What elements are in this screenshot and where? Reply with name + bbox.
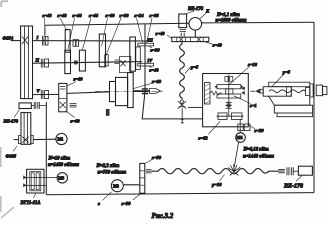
svg-text:p=10: p=10 [211,182,222,187]
svg-text:z=50: z=50 [151,155,162,160]
motor K [189,18,202,31]
couplings before right tachogenerator [278,169,284,172]
svg-text:M4: M4 [237,135,243,140]
enclosure frame bottom edge [46,193,314,195]
svg-text:Φ105: Φ105 [6,154,17,159]
svg-text:z=60: z=60 [70,119,81,124]
svg-text:z=46: z=46 [72,13,83,18]
svg-text:z=66: z=66 [149,13,160,18]
M1 shaft [14,138,56,140]
spindle nose centre arrow [133,90,149,92]
svg-text:z: z [97,201,100,206]
svg-text:M5: M5 [58,175,64,180]
svg-text:I: I [36,35,39,40]
lower belt drive from M1 [19,113,34,145]
worm hub [226,89,233,94]
clutch on shaft I [42,36,44,46]
svg-text:BE-178: BE-178 [3,119,19,124]
svg-text:p=5: p=5 [190,65,199,70]
svg-text:z=46: z=46 [88,13,99,18]
nut stem and bowtie [181,108,183,119]
feed gear column z=50 [140,163,145,193]
shaft from worm box to M4 [239,120,241,133]
shaft V [33,93,59,95]
enclosure frame right edge [313,22,315,192]
burst nut on feed screw [228,164,240,175]
svg-text:n=1440 об/мин: n=1440 об/мин [243,154,274,159]
worm gearbox housing [203,74,249,127]
bowties below worm [226,102,231,108]
svg-text:z=48: z=48 [57,13,68,18]
svg-text:z=48: z=48 [42,13,53,18]
svg-text:z=30: z=30 [150,47,161,52]
svg-text:z=40: z=40 [212,42,223,47]
bevel gear z=30 on vertical shaft [138,43,154,46]
spindle centerline [95,90,163,92]
svg-text:N=10 кBт: N=10 кBт [48,157,71,162]
coupling of tachogenerator [34,102,39,109]
svg-text:z=20: z=20 [254,128,265,133]
svg-text:z=24: z=24 [134,13,145,18]
gear on shaft II [79,50,85,71]
input shaft stub [11,40,21,42]
sleeve block on shaft II [74,60,78,64]
svg-text:z=62: z=62 [198,135,209,140]
svg-text:BГ11-11A: BГ11-11A [20,201,41,206]
svg-text:N=1,1 кBт: N=1,1 кBт [216,13,240,18]
shaft I [33,40,149,42]
z=60/z=60 gear box [59,83,67,111]
variator VG11-11A [23,169,57,193]
M3 shaft to gear [123,184,140,186]
svg-text:z=1: z=1 [249,103,257,108]
motor M1 [56,133,67,144]
leader lines from top labels [45,18,153,59]
coupling marks left of housing [115,60,120,64]
svg-text:BE-178: BE-178 [283,184,303,190]
gear block A shafts I-II [65,30,70,53]
table lead screw [269,90,306,93]
rack with hatch [205,83,210,105]
spring zigzag [210,91,222,95]
longitudinal feed screw (wavy) [152,169,280,174]
svg-text:Φ154: Φ154 [3,36,14,41]
svg-text:M1: M1 [58,137,64,142]
svg-text:III: III [146,38,153,43]
tachogenerator BE-178 left box [19,103,31,109]
svg-text:z=18: z=18 [247,62,258,67]
svg-text:M3: M3 [113,183,119,188]
svg-text:n=1000 об/мин: n=1000 об/мин [216,18,247,23]
upper belt drive (flat belt) [21,26,33,99]
bevel flanges at spindle crossing [142,89,148,94]
shaft II [33,62,143,64]
svg-text:V: V [37,89,41,94]
centre arrow left of table [255,89,260,94]
coupling right of gear box [70,104,77,107]
clutch on shaft V [41,90,43,99]
scan smudge left edge [1,1,14,218]
svg-text:N=2,2 кBт: N=2,2 кBт [96,164,120,169]
svg-text:p=5: p=5 [282,70,291,75]
bevel gear z=48 on vertical shaft [138,63,154,66]
spindle pulley discs [110,82,116,102]
M4 drive line down [234,142,238,167]
bottom shaft of worm box [217,115,244,117]
lower bar [217,94,241,98]
z=20 gear row [238,124,243,131]
svg-text:K: K [205,8,210,13]
svg-text:z=60: z=60 [105,13,116,18]
worm gear vertical shaft [228,75,230,117]
svg-text:n=1460 об/мин: n=1460 об/мин [48,163,79,168]
stub at top line start [44,25,46,36]
svg-text:z=60: z=60 [73,77,84,82]
svg-text:N=0,18 кBт: N=0,18 кBт [243,148,269,153]
worm wheel bar [217,85,241,89]
tachogenerator BE-178 top [179,14,187,28]
enclosure frame left edge [45,102,47,195]
motor M4 [236,133,246,143]
gear chevrons right side [241,86,245,95]
svg-text:z=60: z=60 [151,79,162,84]
coupling right of table [306,88,310,96]
shaft V to spindle pulley [67,92,110,94]
gear pair B on shaft I [73,40,76,47]
svg-text:BE-178: BE-178 [187,7,204,12]
gear tooth blob below pulley [106,109,110,116]
coupling below tachogenerator [180,30,186,32]
svg-text:Pис.3.2: Pис.3.2 [152,212,174,220]
feed pulley bar [172,37,209,41]
svg-text:IV: IV [146,58,153,63]
svg-text:z=48: z=48 [149,67,160,72]
half nut burst on vertical screw [178,100,186,108]
motor M5 [57,173,67,183]
tachogenerator BE-178 right box [298,166,312,175]
gear C cluster [99,34,105,67]
gear D with clutch housing [130,37,136,71]
svg-text:z=50: z=50 [121,201,132,206]
top gear pair [225,77,228,82]
coupling right of gear column [146,170,152,173]
vertical shaft III-IV [142,24,202,119]
svg-text:n=750 об/мин: n=750 об/мин [98,170,127,175]
motor K stem [194,30,196,37]
svg-text:z=30: z=30 [119,13,130,18]
enclosure frame top line [45,22,314,25]
table assembly top right [263,82,312,117]
svg-text:z=40: z=40 [155,31,166,36]
clutch on shaft II [41,59,43,68]
svg-text:II: II [35,58,40,63]
motor M3 [111,180,123,192]
handwheel outside frame [316,85,322,96]
vertical feed screw (wavy) [180,42,185,101]
